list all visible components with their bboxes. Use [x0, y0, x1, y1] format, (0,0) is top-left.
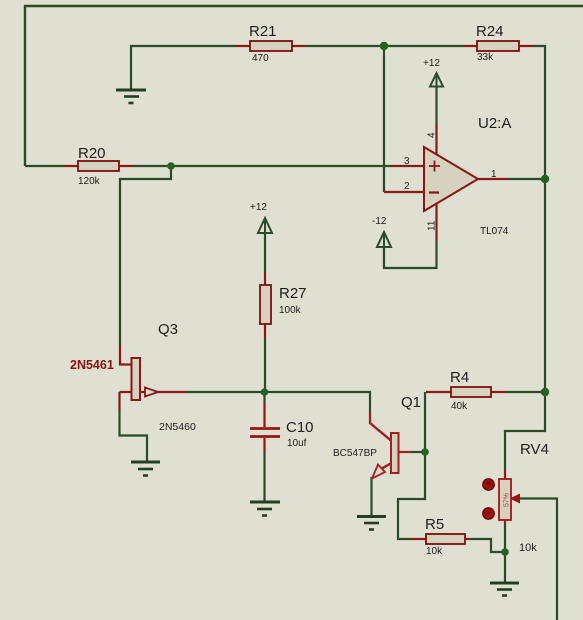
svg-text:100k: 100k: [279, 305, 302, 316]
ground RV4: [490, 583, 519, 596]
svg-text:10k: 10k: [519, 542, 537, 554]
wire R24 to right rail corner: [505, 46, 545, 470]
svg-text:2N5461: 2N5461: [70, 358, 114, 372]
node junction R20 output: [167, 162, 175, 170]
power +12 arrow above R27: [258, 218, 272, 233]
svg-text:R27: R27: [279, 285, 307, 302]
svg-text:R5: R5: [425, 516, 444, 533]
wire R5 right to pot bottom node: [469, 539, 505, 552]
wire R4 right to rail: [505, 391, 545, 393]
wire +12 supply to op-amp pin4: [435, 87, 437, 125]
svg-text:33k: 33k: [477, 52, 494, 63]
capacitor C10: [250, 403, 314, 452]
resistor R4: [426, 369, 505, 412]
resistor R20: [64, 145, 133, 187]
svg-text:2: 2: [404, 181, 410, 192]
resistor R27: [260, 272, 307, 338]
wire top node to op-amp pin2: [383, 46, 385, 192]
wire R21 to R24 through node: [306, 45, 463, 47]
potentiometer RV4: [499, 441, 549, 554]
svg-text:RV4: RV4: [520, 441, 549, 458]
node junction pot bottom: [501, 548, 509, 556]
svg-text:+12: +12: [423, 58, 440, 69]
wire -12 supply to op-amp pin11: [384, 241, 437, 268]
wire R20 left from rail: [25, 165, 64, 167]
node junction C10 R27: [261, 388, 269, 396]
svg-text:C10: C10: [286, 419, 314, 436]
ground top-left: [116, 90, 146, 103]
svg-text:3: 3: [404, 156, 410, 167]
node junction R4 rail: [541, 388, 549, 396]
wire Q3 source to ground: [120, 409, 148, 461]
svg-text:R24: R24: [476, 23, 504, 40]
svg-text:BC547BP: BC547BP: [333, 448, 377, 459]
wire R20 right to op-amp pin3: [133, 165, 391, 167]
ground Q1: [357, 517, 386, 530]
svg-text:4: 4: [427, 132, 438, 138]
svg-text:Q1: Q1: [401, 394, 421, 411]
node junction top R21-R24: [380, 42, 388, 50]
wire pot wiper to bottom edge: [520, 499, 558, 620]
svg-text:57%: 57%: [504, 493, 511, 507]
wire +12 supply to R27: [264, 233, 266, 272]
svg-text:2N5460: 2N5460: [159, 421, 196, 433]
wire R27 to node: [264, 338, 266, 392]
wire pot bottom to ground: [504, 524, 506, 582]
power +12 arrow above op-amp pin4: [430, 73, 443, 87]
svg-text:10uf: 10uf: [287, 438, 307, 449]
resistor R24: [463, 23, 533, 63]
node junction op-amp output: [541, 175, 549, 183]
svg-text:10k: 10k: [426, 546, 443, 557]
svg-text:40k: 40k: [451, 401, 468, 412]
resistor R21: [236, 23, 306, 64]
svg-text:TL074: TL074: [480, 226, 509, 237]
node junction Q1 base: [421, 448, 429, 456]
wire C10 to ground: [263, 452, 265, 501]
wire ground to R21: [131, 46, 236, 89]
transistor Q3 2N5461 JFET: [70, 321, 196, 433]
wire top-left feedback loop: [25, 6, 583, 166]
wire Q1 emitter to ground: [370, 477, 372, 516]
ground C10: [250, 502, 280, 516]
svg-text:Q3: Q3: [158, 321, 178, 338]
svg-text:R21: R21: [249, 23, 277, 40]
wire Q3 drain to C10 node to Q1 collector: [186, 392, 370, 412]
wire Q1 base lead green part: [411, 451, 425, 453]
svg-text:1: 1: [491, 169, 497, 180]
svg-text:U2:A: U2:A: [478, 115, 511, 132]
wire node to Q3 gate: [120, 166, 171, 345]
svg-text:+12: +12: [250, 202, 267, 213]
svg-text:R20: R20: [78, 145, 106, 162]
op-amp U2:A: [384, 115, 511, 241]
wire R4 node down to Q1 base and R5: [398, 392, 425, 539]
wire node to C10: [263, 392, 265, 403]
svg-text:470: 470: [252, 53, 269, 64]
svg-text:R4: R4: [450, 369, 469, 386]
transistor Q1 BC547BP: [333, 394, 421, 479]
probe dot RV4 pin3: [483, 508, 494, 519]
wire op-amp pin1 to right rail: [507, 178, 545, 180]
svg-text:-12: -12: [372, 216, 387, 227]
probe dot RV4 pin1: [483, 479, 494, 490]
resistor R5: [411, 516, 469, 557]
ground Q3: [131, 462, 160, 476]
svg-text:120k: 120k: [78, 176, 101, 187]
power -12 arrow: [377, 232, 391, 247]
svg-text:11: 11: [427, 220, 438, 231]
